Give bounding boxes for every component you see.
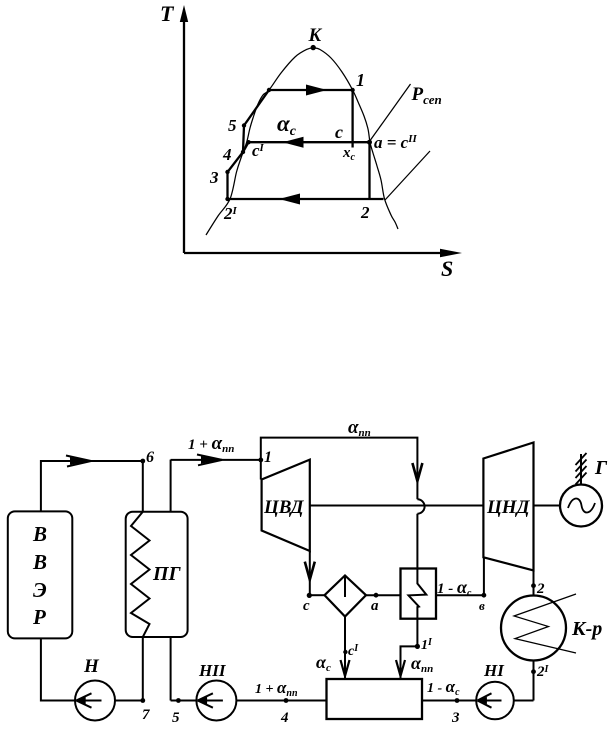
svg-text:Н: Н [83, 656, 100, 677]
svg-text:2: 2 [360, 203, 370, 222]
svg-text:В: В [32, 550, 47, 574]
svg-text:К-р: К-р [571, 618, 602, 640]
svg-text:S: S [441, 256, 453, 281]
svg-text:a: a [371, 598, 379, 614]
svg-text:T: T [160, 1, 175, 26]
svg-text:ПГ: ПГ [152, 563, 182, 585]
svg-text:c: c [303, 598, 310, 614]
svg-text:НII: НII [198, 661, 227, 680]
svg-text:6: 6 [146, 449, 154, 466]
svg-text:1: 1 [356, 70, 365, 90]
svg-text:ЦНД: ЦНД [486, 497, 531, 518]
svg-text:4: 4 [280, 710, 289, 726]
svg-text:Р: Р [32, 605, 46, 629]
svg-text:Г: Г [594, 457, 608, 479]
svg-text:4: 4 [222, 145, 232, 164]
svg-text:c: c [335, 122, 343, 142]
svg-text:1: 1 [264, 449, 272, 466]
svg-text:ЦВД: ЦВД [263, 497, 304, 518]
svg-text:5: 5 [228, 116, 237, 135]
svg-text:K: K [308, 25, 323, 46]
svg-text:3: 3 [451, 710, 460, 726]
svg-text:Э: Э [33, 578, 47, 602]
svg-text:в: в [479, 598, 485, 613]
svg-text:В: В [32, 522, 47, 546]
svg-text:2: 2 [536, 581, 545, 597]
svg-text:3: 3 [209, 168, 219, 187]
svg-text:НI: НI [483, 661, 505, 680]
svg-text:5: 5 [172, 710, 180, 726]
svg-text:7: 7 [142, 707, 150, 723]
svg-text:1 - αc: 1 - αc [437, 577, 472, 599]
